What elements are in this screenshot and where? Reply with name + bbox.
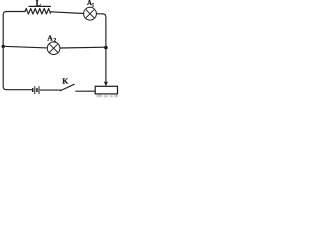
svg-text:2: 2: [53, 38, 56, 44]
svg-text:L: L: [36, 0, 41, 8]
svg-text:K: K: [62, 76, 68, 85]
